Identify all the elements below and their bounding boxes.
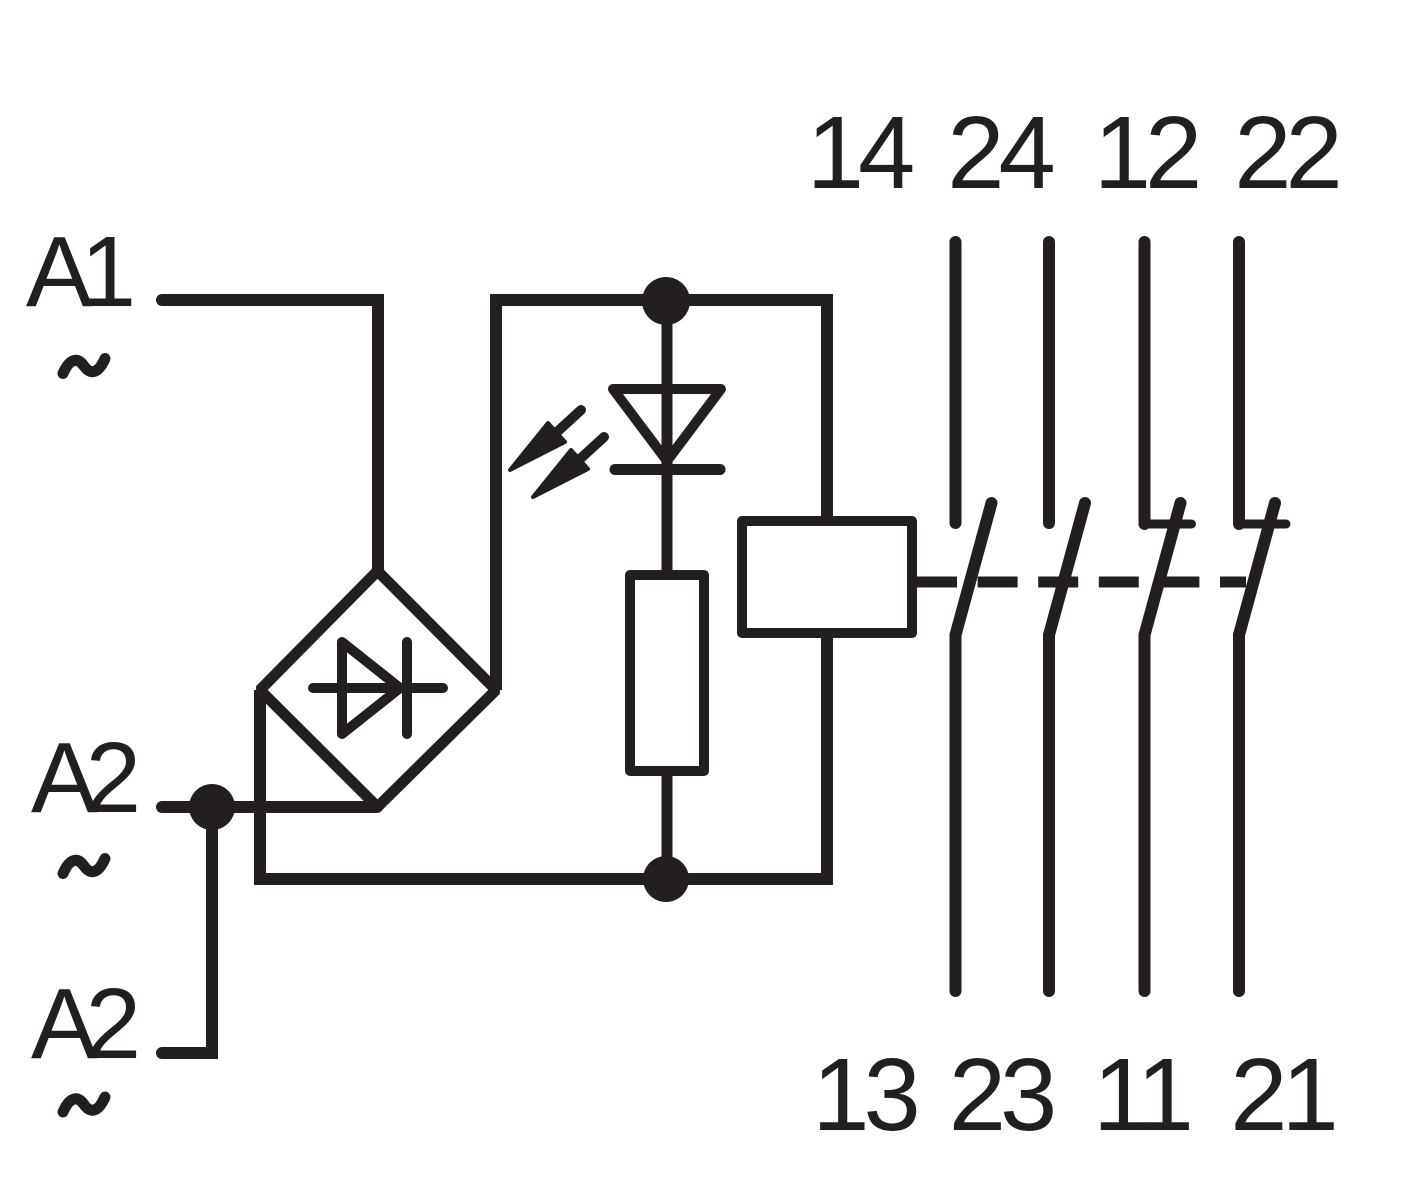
LED emission arrow 1	[510, 410, 581, 470]
wire bottom A2 up to A2 node	[162, 807, 212, 1053]
wire resistor to bottom rail	[662, 771, 673, 879]
bridge diode axis lead	[313, 683, 443, 693]
contact 14/13 blade	[956, 503, 992, 635]
AC tilde under bottom A2	[63, 1097, 105, 1112]
wire top node through LED to resistor	[662, 301, 673, 575]
svg-text:22: 22	[1234, 95, 1338, 210]
wire A2 to bridge bottom corner	[162, 801, 377, 813]
svg-text:14: 14	[807, 95, 913, 210]
junction dot top node	[642, 277, 690, 325]
contact 12 NC bar	[1144, 520, 1192, 529]
svg-text:24: 24	[947, 95, 1053, 210]
wire bridge left corner to bottom rail and coil bottom	[260, 637, 827, 879]
bridge rectifier outline	[260, 571, 496, 807]
mechanical link dashed line	[917, 577, 1246, 588]
svg-text:A2: A2	[31, 968, 137, 1080]
svg-text:21: 21	[1230, 1037, 1334, 1152]
svg-text:12: 12	[1094, 95, 1198, 210]
bridge diode cathode bar	[402, 642, 412, 734]
svg-text:23: 23	[949, 1037, 1053, 1152]
contact 14 top wire	[950, 242, 962, 523]
svg-text:A1: A1	[26, 216, 132, 328]
contact 11 bottom wire	[1139, 635, 1151, 991]
relay coil K	[742, 521, 912, 633]
contact 22/21 blade	[1239, 503, 1275, 635]
contact 23 bottom wire	[1043, 635, 1055, 991]
wire bridge right corner up to top rail and down to coil top	[496, 300, 827, 690]
contact 22 NC bar	[1238, 520, 1286, 529]
junction dot node A2	[189, 784, 235, 830]
LED triangle	[613, 389, 721, 461]
contact 24 top wire	[1043, 242, 1055, 523]
LED emission arrow 2	[533, 437, 604, 497]
contact 22 top wire	[1233, 242, 1245, 524]
svg-text:A2: A2	[31, 722, 137, 834]
LED cathode bar	[615, 464, 720, 475]
contact 13 bottom wire	[950, 635, 962, 991]
contact 12/11 blade	[1145, 503, 1181, 635]
wire A1 to bridge top corner	[162, 300, 378, 569]
AC tilde under A2	[63, 859, 105, 874]
svg-text:13: 13	[812, 1037, 916, 1152]
contact 12 top wire	[1139, 242, 1151, 524]
svg-text:11: 11	[1093, 1037, 1190, 1152]
AC tilde under A1	[63, 359, 105, 374]
contact 24/23 blade	[1049, 503, 1085, 635]
junction dot bottom node	[643, 856, 689, 902]
resistor R	[630, 575, 704, 771]
contact 21 bottom wire	[1233, 635, 1245, 991]
bridge diode triangle	[342, 642, 400, 734]
